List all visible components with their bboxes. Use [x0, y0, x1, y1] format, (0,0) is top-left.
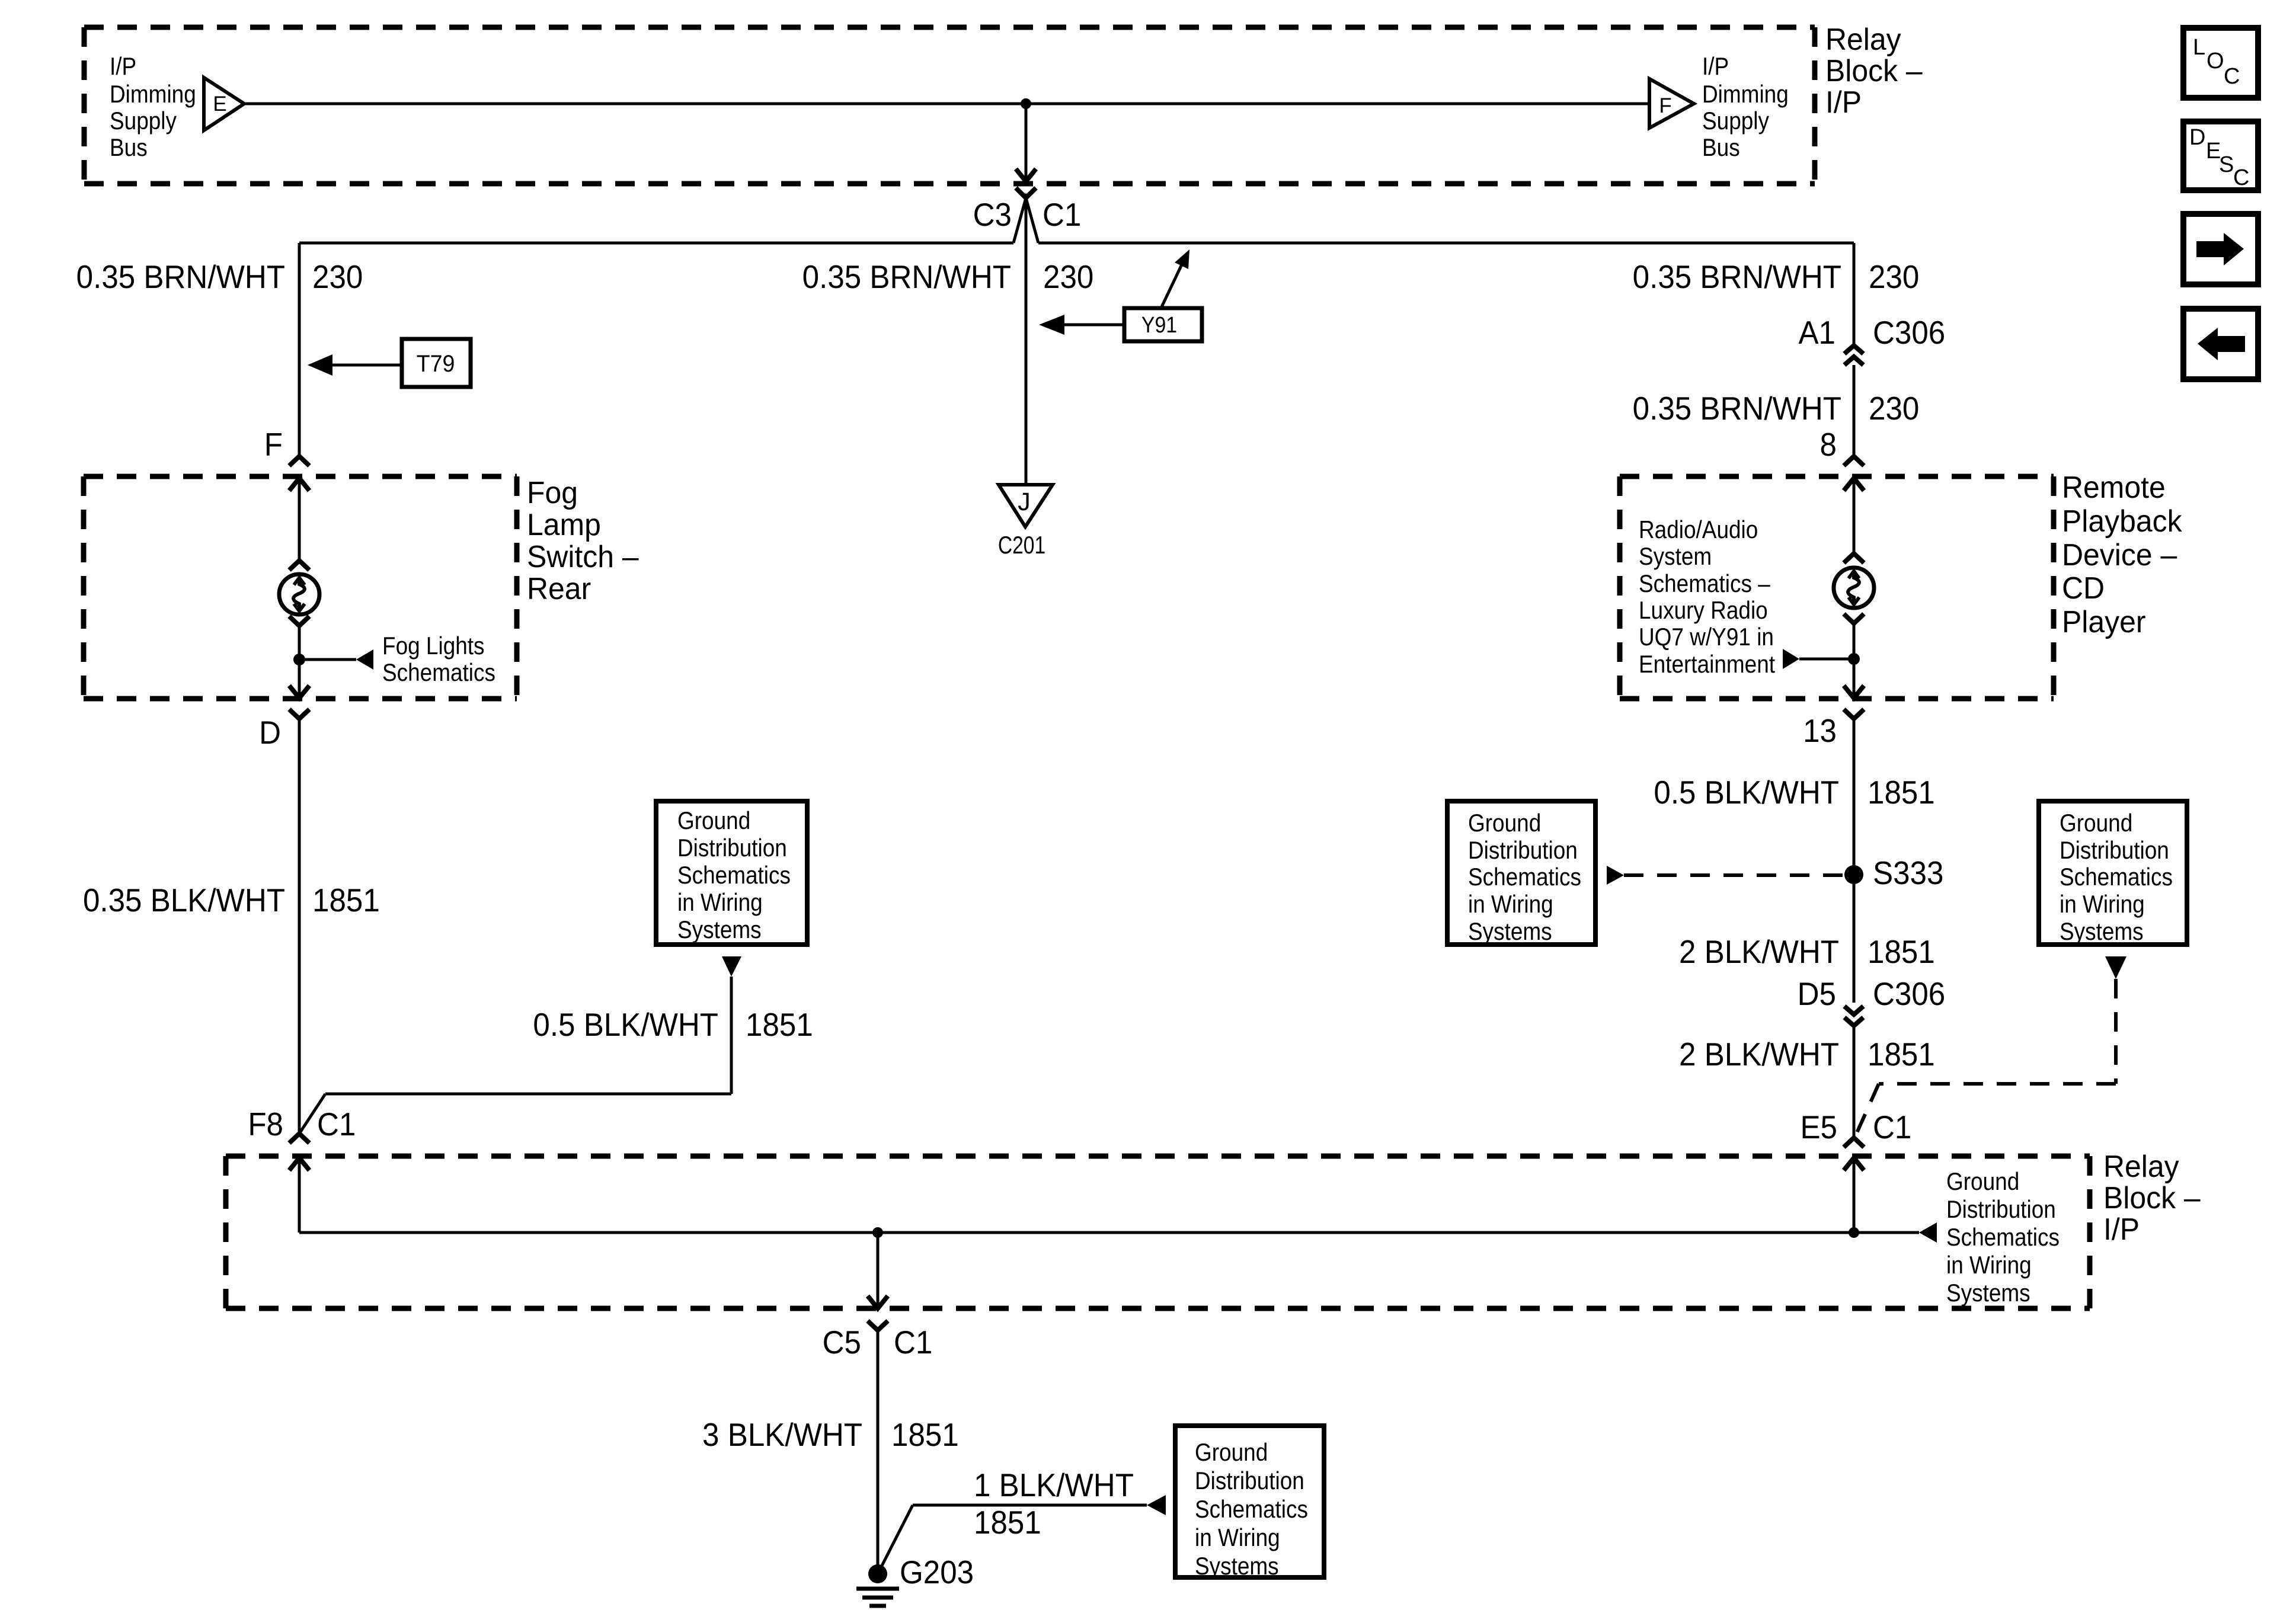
- node: CD player junction: [1848, 653, 1860, 665]
- dashed wire to S333: [1624, 873, 1844, 877]
- wire: right horizontal 230 circuit: [1038, 242, 1854, 245]
- connector chevron at CD player pin 8: [1844, 456, 1864, 466]
- ground distribution reference box (right): [2039, 801, 2187, 945]
- svg-text:T79: T79: [417, 351, 455, 377]
- svg-text:Ground: Ground: [1468, 809, 1541, 837]
- T79 reference box: [402, 339, 471, 387]
- dashed wire: diagonal into E5: [1856, 1084, 1879, 1135]
- svg-text:Systems: Systems: [1946, 1279, 2030, 1307]
- wire: CD junction to box bottom: [1853, 659, 1856, 698]
- svg-text:in Wiring: in Wiring: [1946, 1251, 2032, 1279]
- svg-text:Bus: Bus: [1702, 134, 1740, 162]
- relay block I/P (bottom) dashed enclosure: [226, 1154, 2090, 1159]
- svg-text:S333: S333: [1873, 855, 1943, 891]
- svg-text:I/P: I/P: [2103, 1212, 2140, 1246]
- connector J triangle to C201: [999, 485, 1053, 527]
- svg-text:8: 8: [1820, 427, 1837, 463]
- arrow from T79 to wire: [332, 364, 402, 367]
- fog lamp switch dashed enclosure: [84, 474, 517, 479]
- svg-text:D5: D5: [1798, 976, 1836, 1012]
- svg-text:F: F: [1659, 94, 1671, 117]
- svg-text:Dimming: Dimming: [110, 81, 196, 108]
- wire: ground box down: [730, 977, 733, 1094]
- branch wire to Fog Lights Schematics: [299, 658, 356, 661]
- terminal F triangle: [1649, 79, 1694, 128]
- arrowhead into relay block at E5 (up): [1844, 1158, 1864, 1170]
- wire: C306 to CD player: [1853, 365, 1856, 456]
- svg-text:Relay: Relay: [1825, 22, 1901, 56]
- wire: relay block internal bus: [299, 1231, 1854, 1234]
- icon: previous arrow button: [2183, 309, 2258, 379]
- svg-text:0.35 BLK/WHT: 0.35 BLK/WHT: [83, 882, 285, 918]
- ground distribution reference box (center-left): [656, 801, 807, 945]
- svg-text:C5: C5: [823, 1324, 861, 1361]
- svg-text:System: System: [1639, 543, 1712, 571]
- ground distribution reference box (bottom): [1175, 1426, 1324, 1577]
- svg-text:1851: 1851: [746, 1007, 813, 1043]
- connector C3/C1 chevron: [1016, 188, 1036, 198]
- svg-text:1851: 1851: [312, 882, 380, 918]
- arrowhead into fog switch (up): [289, 478, 309, 491]
- svg-text:UQ7 w/Y91 in: UQ7 w/Y91 in: [1639, 623, 1774, 651]
- svg-text:Schematics: Schematics: [1468, 863, 1581, 891]
- svg-text:230: 230: [1043, 259, 1093, 295]
- svg-text:C: C: [2233, 165, 2249, 190]
- svg-text:Schematics: Schematics: [677, 862, 791, 889]
- arrowhead into relay block edge (down): [1016, 169, 1036, 181]
- connector chevron E5/C1: [1844, 1138, 1864, 1147]
- arrow below ground box (down filled): [722, 956, 741, 977]
- wire: left horizontal 230 circuit: [299, 242, 1013, 245]
- svg-text:Systems: Systems: [677, 916, 762, 944]
- svg-text:Ground: Ground: [1195, 1439, 1268, 1467]
- fog lamp switch rheostat symbol: [279, 574, 319, 614]
- svg-text:Player: Player: [2062, 604, 2146, 639]
- wire: drop to C5: [877, 1233, 880, 1307]
- remote playback device dashed enclosure: [1620, 474, 2054, 479]
- svg-text:C1: C1: [894, 1324, 932, 1361]
- svg-text:C306: C306: [1873, 315, 1945, 351]
- arrowhead into relay block at F8 (up): [289, 1158, 309, 1170]
- svg-text:1851: 1851: [1868, 1036, 1935, 1073]
- svg-text:Systems: Systems: [1195, 1553, 1279, 1580]
- svg-text:J: J: [1018, 488, 1031, 516]
- connector chevron at CD player pin 13: [1844, 709, 1864, 719]
- svg-text:A1: A1: [1798, 315, 1835, 351]
- svg-text:230: 230: [1869, 391, 1919, 427]
- svg-text:Entertainment: Entertainment: [1639, 651, 1775, 678]
- svg-text:F: F: [264, 427, 283, 463]
- svg-text:E5: E5: [1800, 1109, 1837, 1145]
- svg-text:in Wiring: in Wiring: [2060, 891, 2145, 918]
- ground G203 symbol: [868, 1564, 887, 1583]
- connector D5/C306 double chevron: [1844, 1006, 1863, 1014]
- svg-text:E: E: [213, 92, 226, 116]
- splice S333: [1844, 865, 1863, 884]
- svg-text:Systems: Systems: [2060, 918, 2144, 946]
- svg-text:Supply: Supply: [1702, 107, 1769, 135]
- svg-text:Distribution: Distribution: [2060, 837, 2169, 865]
- relay block I/P (top) dashed enclosure: [84, 25, 1815, 30]
- wire: ground box lateral to F8: [325, 1093, 731, 1096]
- svg-text:Schematics: Schematics: [382, 659, 495, 687]
- ground distribution reference box (center): [1447, 801, 1595, 945]
- chevron below CD rheostat: [1844, 614, 1864, 623]
- svg-text:1851: 1851: [1868, 774, 1935, 811]
- wire: left vertical drop at F: [298, 243, 301, 455]
- arrowhead out of fog switch (down): [289, 686, 309, 698]
- svg-text:S: S: [2219, 152, 2234, 177]
- svg-text:1851: 1851: [891, 1417, 959, 1453]
- svg-text:2 BLK/WHT: 2 BLK/WHT: [1679, 1036, 1839, 1073]
- svg-text:in Wiring: in Wiring: [1195, 1524, 1280, 1552]
- svg-text:0.5 BLK/WHT: 0.5 BLK/WHT: [1654, 774, 1839, 811]
- svg-text:C1: C1: [317, 1106, 356, 1142]
- arrowhead into CD player (up): [1844, 478, 1864, 491]
- svg-text:Block –: Block –: [2103, 1180, 2201, 1215]
- arrowhead out of CD player (down): [1844, 686, 1864, 698]
- svg-text:0.5 BLK/WHT: 0.5 BLK/WHT: [533, 1007, 718, 1043]
- svg-text:I/P: I/P: [1825, 85, 1862, 119]
- svg-text:230: 230: [1869, 259, 1919, 295]
- svg-text:Schematics: Schematics: [1195, 1496, 1308, 1523]
- wire: dimming supply bus E to F: [244, 103, 1649, 105]
- icon: LOC button: [2183, 28, 2258, 98]
- svg-text:1851: 1851: [974, 1505, 1041, 1541]
- svg-text:Playback: Playback: [2062, 504, 2182, 538]
- svg-text:D: D: [259, 715, 281, 751]
- svg-text:D: D: [2189, 125, 2205, 150]
- svg-text:F8: F8: [248, 1106, 283, 1142]
- svg-text:Rear: Rear: [527, 571, 591, 606]
- svg-text:in Wiring: in Wiring: [1468, 891, 1553, 918]
- arrow from Y91 to C201 wire: [1064, 324, 1124, 327]
- svg-text:Distribution: Distribution: [1468, 837, 1578, 865]
- svg-text:Ground: Ground: [1946, 1168, 2019, 1196]
- icon: next arrow button: [2183, 214, 2258, 284]
- arrow to Ground Distribution note: [1854, 1231, 1919, 1234]
- svg-text:Schematics –: Schematics –: [1639, 570, 1770, 598]
- svg-text:CD: CD: [2062, 571, 2105, 605]
- svg-text:in Wiring: in Wiring: [677, 889, 763, 917]
- wire: diagonal from ground to branch: [878, 1505, 913, 1574]
- connector C3/C1 splay legs: [1013, 198, 1038, 243]
- svg-text:C3: C3: [973, 197, 1012, 233]
- arrow from Y91 to 230 wire (diagonal): [1161, 260, 1184, 308]
- dashed wire: lateral to E5: [1879, 1082, 2116, 1086]
- svg-text:Y91: Y91: [1141, 312, 1177, 337]
- chevron above CD rheostat: [1844, 553, 1864, 563]
- svg-text:C306: C306: [1873, 976, 1945, 1012]
- svg-text:C201: C201: [998, 532, 1045, 559]
- svg-text:13: 13: [1803, 713, 1837, 749]
- connector chevron C5/C1: [868, 1321, 888, 1330]
- svg-text:Luxury Radio: Luxury Radio: [1639, 597, 1768, 625]
- svg-text:Device –: Device –: [2062, 537, 2177, 572]
- wire: junction down to relay block edge: [1025, 104, 1028, 179]
- chevron above fog switch contact: [289, 561, 309, 570]
- wire: right vertical drop to A1: [1853, 243, 1856, 345]
- svg-text:Fog: Fog: [527, 475, 578, 510]
- wire: center vertical down to C201: [1025, 198, 1028, 485]
- Y91 reference box: [1124, 308, 1202, 341]
- svg-text:1 BLK/WHT: 1 BLK/WHT: [974, 1467, 1134, 1503]
- svg-text:C1: C1: [1043, 197, 1081, 233]
- svg-text:0.35 BRN/WHT: 0.35 BRN/WHT: [802, 259, 1011, 295]
- chevron below fog switch contact: [289, 616, 309, 626]
- svg-text:Radio/Audio: Radio/Audio: [1639, 516, 1758, 544]
- svg-text:O: O: [2207, 49, 2224, 73]
- node: bus junction: [1021, 98, 1031, 109]
- svg-text:1851: 1851: [1868, 934, 1935, 970]
- svg-text:Supply: Supply: [110, 107, 177, 135]
- connector chevron F8/C1: [289, 1134, 309, 1143]
- node: fog switch branch junction: [293, 654, 305, 665]
- icon: DESC button: [2183, 121, 2258, 190]
- svg-text:230: 230: [312, 259, 363, 295]
- svg-text:Dimming: Dimming: [1702, 81, 1789, 108]
- wire: junction to fog box bottom: [298, 660, 301, 698]
- arrow below right ground box (down filled): [2105, 956, 2126, 979]
- svg-text:3 BLK/WHT: 3 BLK/WHT: [702, 1417, 862, 1453]
- svg-text:2 BLK/WHT: 2 BLK/WHT: [1679, 934, 1839, 970]
- wire: diagonal into F8 connector: [299, 1094, 325, 1134]
- CD player rheostat symbol: [1834, 568, 1874, 608]
- svg-text:I/P: I/P: [110, 53, 136, 81]
- node: relay block junction E5 side: [1849, 1227, 1859, 1238]
- svg-text:Relay: Relay: [2103, 1149, 2179, 1183]
- arrow from ground box to S333: [1607, 866, 1624, 885]
- wire: branch to ground distribution note: [913, 1504, 1147, 1507]
- svg-text:Distribution: Distribution: [1195, 1467, 1304, 1495]
- terminal E triangle: [204, 78, 244, 130]
- connector chevron at fog switch pin F: [289, 456, 309, 466]
- svg-text:Remote: Remote: [2062, 470, 2166, 504]
- connector chevron at fog switch pin D: [289, 709, 309, 719]
- svg-text:Block –: Block –: [1825, 53, 1923, 88]
- node: relay block junction C5 drop: [872, 1227, 883, 1238]
- arrowhead out of relay block (down): [868, 1296, 888, 1308]
- svg-text:0.35 BRN/WHT: 0.35 BRN/WHT: [76, 259, 285, 295]
- dashed wire: right ground box down: [2114, 979, 2118, 1084]
- svg-text:Fog Lights: Fog Lights: [382, 632, 485, 660]
- connector A1/C306 double chevron: [1844, 345, 1863, 354]
- svg-text:0.35 BRN/WHT: 0.35 BRN/WHT: [1633, 259, 1841, 295]
- svg-text:Ground: Ground: [677, 807, 750, 835]
- svg-text:Schematics: Schematics: [2060, 863, 2173, 891]
- svg-text:G203: G203: [900, 1554, 974, 1590]
- svg-text:Distribution: Distribution: [677, 834, 787, 862]
- svg-text:L: L: [2193, 35, 2205, 60]
- svg-text:C: C: [2224, 64, 2240, 89]
- svg-text:Systems: Systems: [1468, 918, 1552, 946]
- svg-text:Distribution: Distribution: [1946, 1196, 2056, 1224]
- svg-text:Schematics: Schematics: [1946, 1224, 2060, 1251]
- svg-text:Bus: Bus: [110, 134, 148, 162]
- svg-text:I/P: I/P: [1702, 53, 1729, 81]
- svg-text:Switch –: Switch –: [527, 539, 639, 574]
- svg-text:C1: C1: [1873, 1109, 1911, 1145]
- svg-text:Ground: Ground: [2060, 809, 2132, 837]
- svg-text:0.35 BRN/WHT: 0.35 BRN/WHT: [1633, 391, 1841, 427]
- arrow from Entertainment note: [1783, 649, 1799, 669]
- svg-text:Lamp: Lamp: [527, 507, 601, 542]
